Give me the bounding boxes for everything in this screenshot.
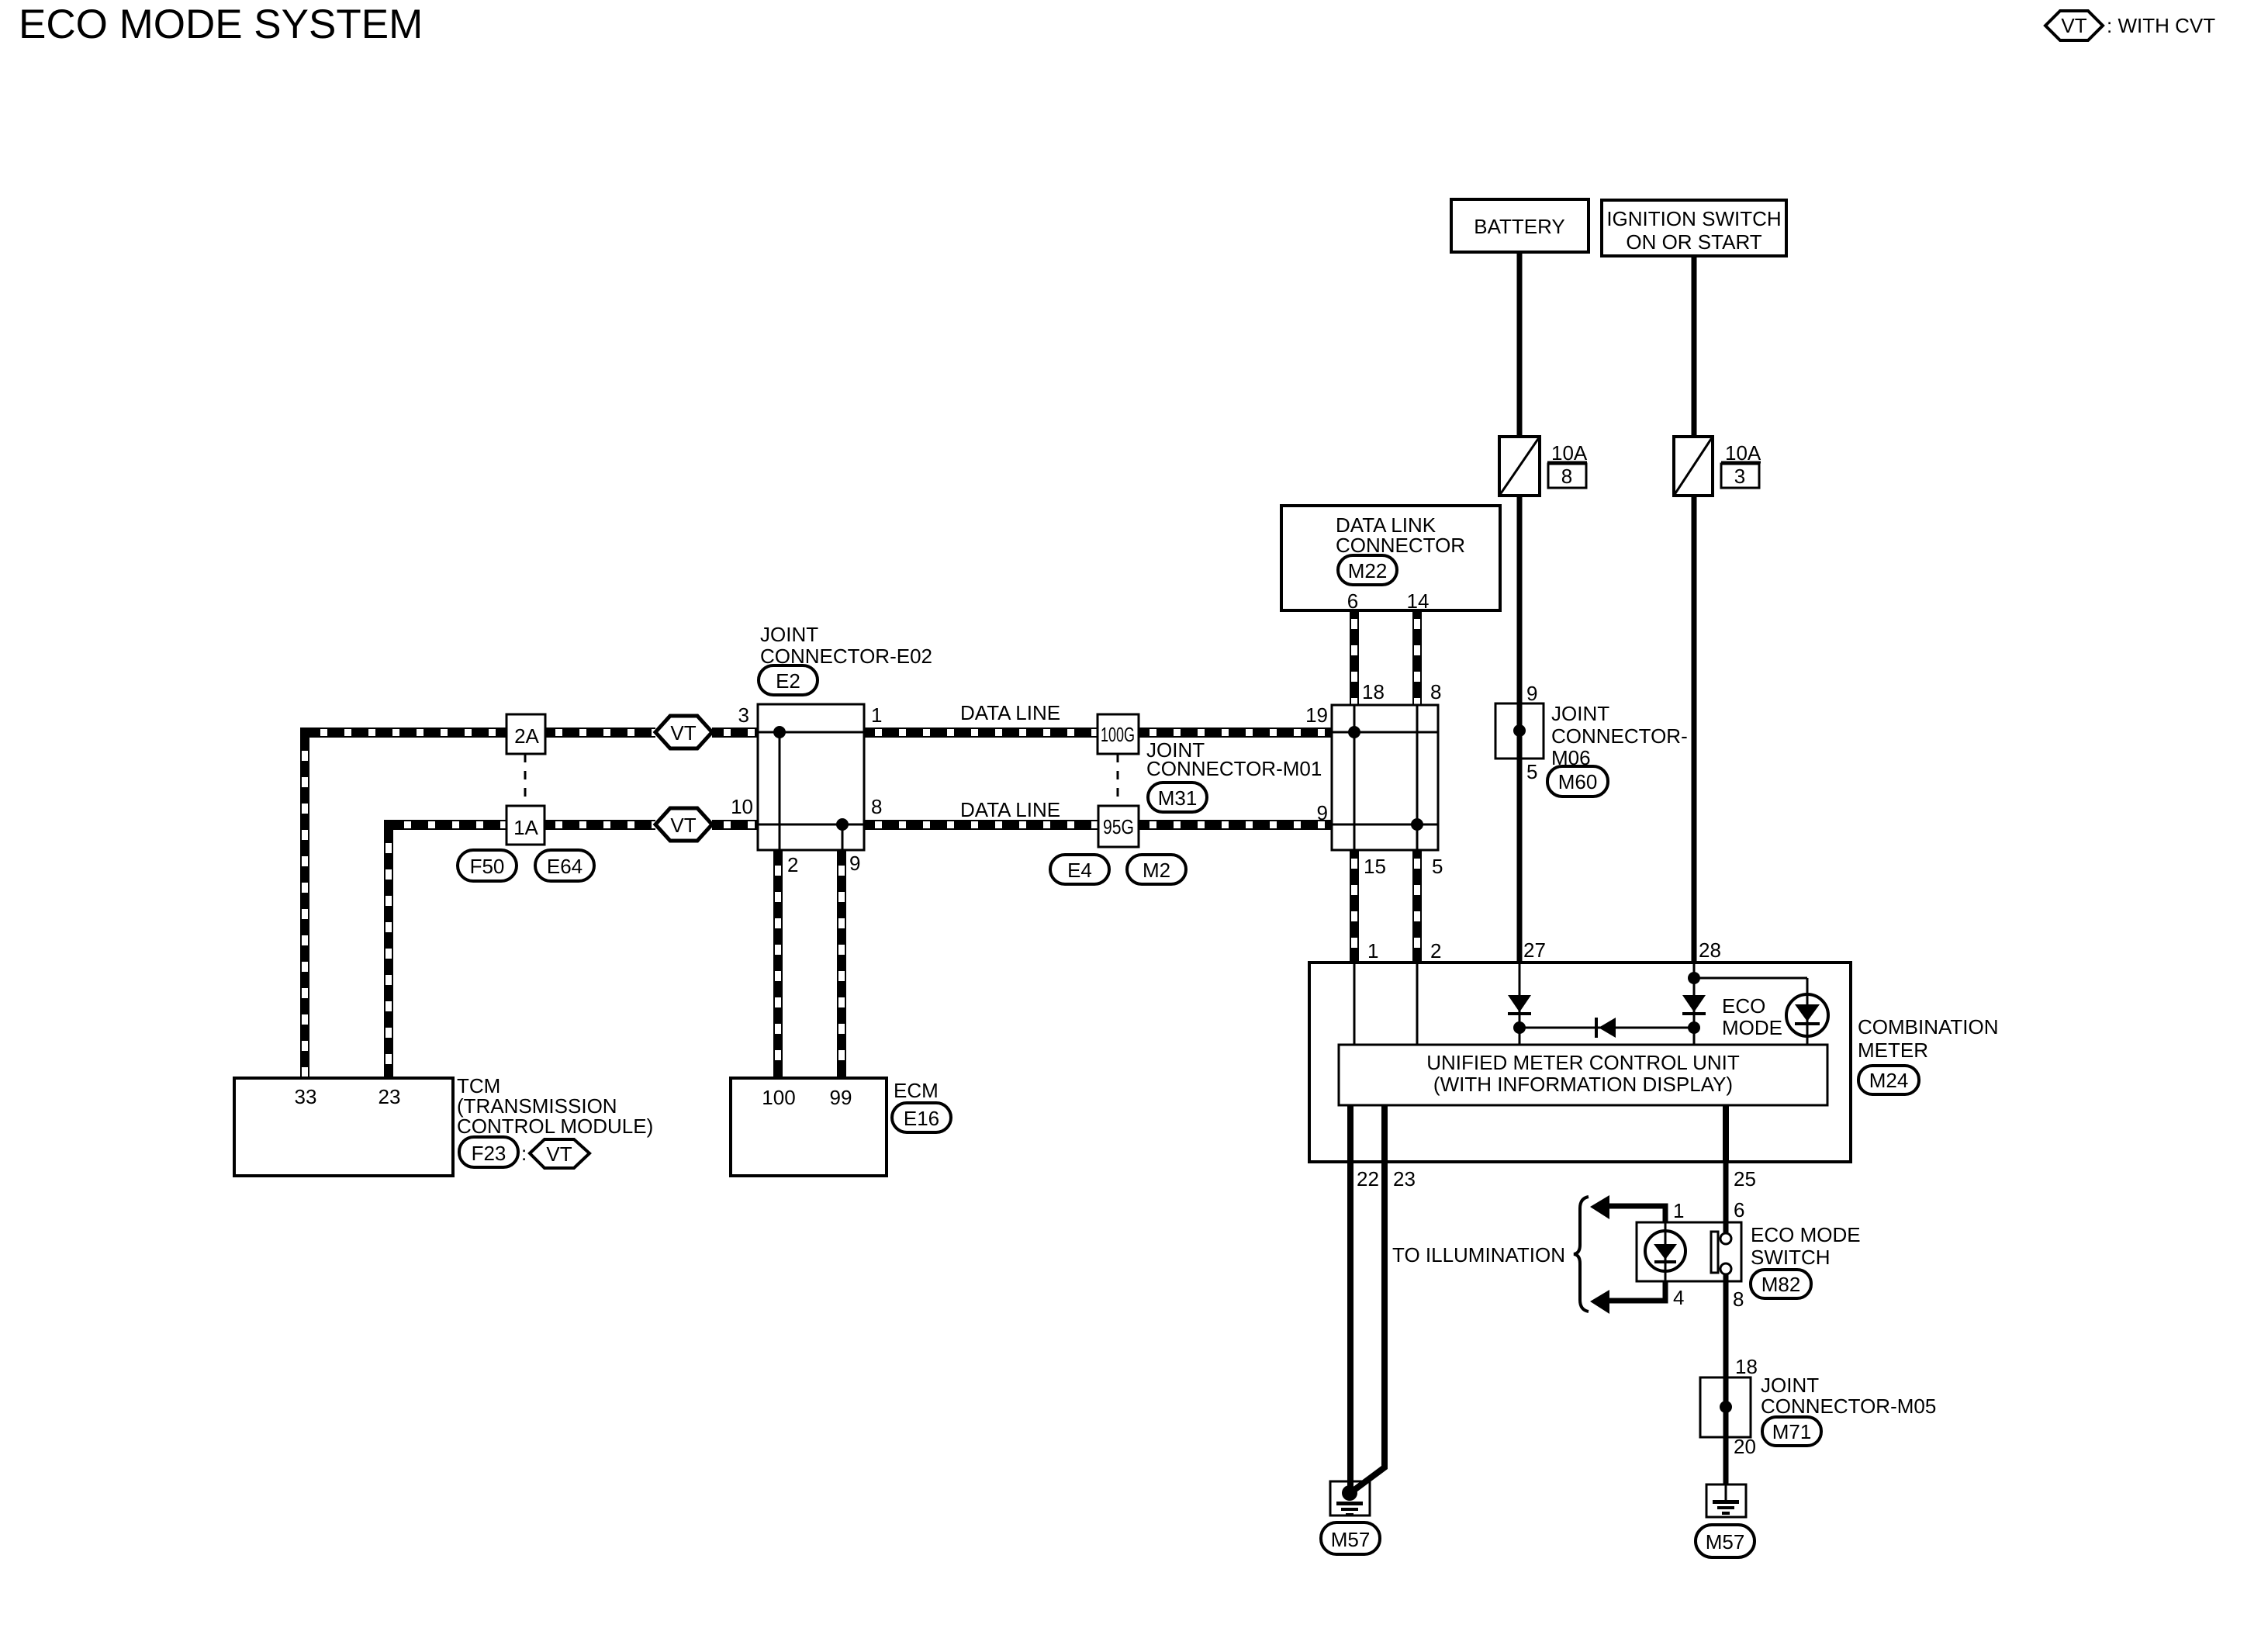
- svg-text:M2: M2: [1143, 859, 1170, 882]
- connector oval M24: [1858, 1066, 1919, 1094]
- wire meter pin23 to ground: [1351, 1162, 1385, 1492]
- wire 2A to VT hexagon (data line 1): [545, 728, 655, 738]
- svg-text:COMBINATION: COMBINATION: [1858, 1015, 1999, 1039]
- svg-text:100: 100: [762, 1086, 795, 1109]
- ignition switch box: [1602, 200, 1786, 256]
- wire data-line-2 corner to 1A box (horizontal): [384, 820, 506, 830]
- connector oval F50: [458, 850, 517, 881]
- connector oval E64: [535, 850, 594, 881]
- wire E02 pin2 to ECM pin100: [773, 850, 783, 1078]
- switch contact bar: [1711, 1232, 1718, 1273]
- junction in M01 (pin19/pin18): [1348, 726, 1360, 738]
- connector oval F23: [459, 1137, 518, 1167]
- label COMBINATION METER: [1858, 1015, 1999, 1062]
- ECM box: [731, 1078, 887, 1176]
- svg-text:E2: E2: [776, 669, 800, 693]
- wire meter pin27 to unit: [1519, 963, 1521, 1045]
- wire fuse8 to combination meter pin 27: [1517, 496, 1523, 963]
- wire inside M01 pin8 to pin5: [1416, 705, 1419, 850]
- connector oval M2: [1127, 855, 1186, 884]
- wire fuse3 to combination meter pin 28: [1692, 496, 1697, 963]
- svg-text:5: 5: [1432, 855, 1443, 878]
- svg-text:100G: 100G: [1101, 723, 1135, 746]
- combination meter box: [1309, 963, 1851, 1162]
- wire DLC pin6 to M01 pin18: [1350, 610, 1359, 705]
- svg-text:IGNITION SWITCH: IGNITION SWITCH: [1606, 207, 1781, 230]
- TCM box: [234, 1078, 453, 1176]
- wire inside M01 pin18 to pin15: [1353, 705, 1356, 850]
- label JOINT CONNECTOR-M01: [1146, 738, 1322, 780]
- svg-text:3: 3: [1734, 465, 1745, 488]
- svg-text:23: 23: [379, 1085, 401, 1108]
- label TCM (TRANSMISSION CONTROL MODULE): [457, 1074, 653, 1138]
- svg-text:M57: M57: [1706, 1530, 1745, 1554]
- wire 1A to VT hexagon (data line 2): [545, 820, 655, 830]
- svg-text:18: 18: [1735, 1355, 1758, 1378]
- VT hexagon (TCM condition): [530, 1139, 589, 1168]
- svg-text:28: 28: [1699, 938, 1721, 962]
- svg-text:F50: F50: [470, 855, 505, 878]
- wire data-line-1 corner to 2A box (horizontal): [300, 728, 506, 738]
- label JOINT CONNECTOR-M06: [1551, 702, 1688, 769]
- svg-text:E4: E4: [1067, 859, 1092, 882]
- svg-text:VT: VT: [670, 721, 696, 745]
- svg-text:CONNECTOR-M05: CONNECTOR-M05: [1761, 1395, 1936, 1418]
- wire M01 pin15 to meter pin1: [1350, 850, 1359, 963]
- svg-text:DATA LINE: DATA LINE: [960, 701, 1060, 724]
- wire M05 pin20 to ground: [1723, 1437, 1729, 1484]
- svg-text:JOINT: JOINT: [1551, 702, 1609, 725]
- dashed link 2A to 1A: [524, 754, 527, 806]
- svg-text:23: 23: [1393, 1167, 1416, 1191]
- svg-text:M71: M71: [1772, 1420, 1812, 1443]
- junction below D1: [1513, 1021, 1526, 1034]
- brace TO ILLUMINATION: [1574, 1197, 1589, 1312]
- svg-text:8: 8: [1733, 1287, 1744, 1311]
- wire inside E02 pin3 to pin1: [758, 731, 864, 734]
- junction in E02 (pin3): [773, 726, 786, 738]
- svg-text:VT: VT: [2061, 14, 2086, 37]
- svg-text:8: 8: [871, 795, 882, 818]
- wire M01 pin5 to meter pin2: [1412, 850, 1422, 963]
- illumination arrow (top): [1590, 1195, 1665, 1222]
- VT hexagon (data line 1): [655, 716, 712, 748]
- svg-text:(WITH INFORMATION DISPLAY): (WITH INFORMATION DISPLAY): [1433, 1073, 1733, 1096]
- label ECO MODE SWITCH: [1751, 1223, 1861, 1269]
- dashed link 100G to 95G: [1117, 754, 1119, 806]
- fuse number box 8: [1548, 464, 1586, 488]
- connector oval M57 (left): [1321, 1522, 1380, 1554]
- fuse 10A (ignition, No.3): [1674, 437, 1713, 496]
- svg-text:SWITCH: SWITCH: [1751, 1246, 1831, 1269]
- splice 100G: [1098, 714, 1139, 754]
- svg-text:CONNECTOR-M01: CONNECTOR-M01: [1146, 757, 1322, 780]
- svg-text:10: 10: [731, 795, 753, 818]
- connector oval M31: [1148, 783, 1207, 812]
- svg-text:CONNECTOR: CONNECTOR: [1336, 534, 1465, 557]
- svg-text:M60: M60: [1558, 770, 1598, 793]
- label ECO MODE: [1722, 994, 1782, 1039]
- connector oval M82: [1751, 1270, 1811, 1298]
- svg-text:ON OR START: ON OR START: [1626, 230, 1761, 254]
- unified meter control unit box: [1339, 1045, 1827, 1105]
- svg-text:M31: M31: [1158, 786, 1198, 810]
- wire inside E02 down to pin2: [779, 732, 781, 850]
- wire meter pin22 to ground: [1347, 1162, 1353, 1494]
- joint connector M06: [1495, 703, 1544, 759]
- svg-text:ECO: ECO: [1722, 994, 1765, 1018]
- splice 1A: [506, 806, 545, 845]
- wire 100G to M01 pin 19: [1139, 728, 1332, 738]
- svg-text:: WITH CVT: : WITH CVT: [2107, 14, 2215, 37]
- svg-text:6: 6: [1347, 589, 1358, 613]
- svg-text:19: 19: [1305, 703, 1328, 727]
- svg-text:3: 3: [738, 703, 749, 727]
- wire battery to fuse: [1517, 252, 1523, 437]
- wire VT to joint connector E02 pin 3: [712, 728, 758, 738]
- data link connector box: [1281, 506, 1500, 610]
- svg-text:E64: E64: [547, 855, 583, 878]
- wire unit to meter pin22: [1347, 1105, 1353, 1162]
- svg-text:TO ILLUMINATION: TO ILLUMINATION: [1392, 1243, 1565, 1267]
- svg-text:E16: E16: [904, 1107, 939, 1130]
- wire meter pin2 to unit: [1416, 963, 1419, 1045]
- wire unit to meter pin23: [1381, 1105, 1388, 1162]
- ECO MODE indicator LED: [1786, 994, 1828, 1036]
- connector oval E16: [892, 1103, 951, 1132]
- wire E02 pin9 to ECM pin99: [837, 850, 846, 1078]
- switch contact (top): [1720, 1233, 1731, 1244]
- connector oval E2: [759, 665, 818, 695]
- svg-text:9: 9: [1526, 682, 1537, 705]
- svg-text:UNIFIED METER CONTROL UNIT: UNIFIED METER CONTROL UNIT: [1426, 1051, 1740, 1074]
- svg-text:MODE: MODE: [1722, 1016, 1782, 1039]
- fuse 10A (battery, No.8): [1499, 437, 1540, 496]
- svg-text:4: 4: [1673, 1286, 1684, 1309]
- svg-text:22: 22: [1357, 1167, 1379, 1191]
- wire pin28 branch to ECO MODE lamp: [1694, 978, 1807, 995]
- connector oval M57 (right): [1696, 1525, 1755, 1557]
- svg-text:99: 99: [830, 1086, 852, 1109]
- svg-text:ECO MODE SYSTEM: ECO MODE SYSTEM: [19, 2, 423, 47]
- label JOINT CONNECTOR-M05: [1761, 1374, 1936, 1418]
- svg-text:CONNECTOR-: CONNECTOR-: [1551, 724, 1688, 748]
- svg-text:1: 1: [871, 703, 882, 727]
- wire lamp to unit: [1806, 1036, 1809, 1045]
- svg-text:2: 2: [787, 853, 798, 876]
- connector oval E4: [1050, 855, 1109, 884]
- illumination arrow (bottom): [1590, 1281, 1665, 1314]
- svg-text:18: 18: [1362, 680, 1385, 703]
- diode D2 (pin28): [1682, 995, 1706, 1015]
- wire data-line-2 corner to TCM pin 23 (vertical): [384, 820, 393, 1078]
- splice 2A: [506, 714, 545, 754]
- svg-text:1A: 1A: [513, 816, 538, 839]
- svg-text:BATTERY: BATTERY: [1474, 215, 1565, 238]
- wire inside M01 pin9 horizontal: [1332, 824, 1438, 826]
- wire VT to joint connector E02 pin 10: [712, 820, 758, 830]
- wire inside E02 pin10 to pin8: [758, 824, 864, 826]
- junction in E02 (pin10): [836, 818, 849, 831]
- eco mode switch box: [1637, 1222, 1741, 1281]
- legend VT hexagon: [2045, 11, 2103, 40]
- svg-text:ECM: ECM: [894, 1079, 939, 1102]
- switch illumination LED: [1645, 1222, 1685, 1281]
- svg-text:5: 5: [1526, 760, 1537, 783]
- connector oval M22: [1338, 555, 1397, 585]
- wire E02 pin 8 to 95G (DATA LINE): [864, 820, 1098, 830]
- joint connector E02 box: [758, 704, 864, 850]
- svg-text:1: 1: [1367, 939, 1378, 963]
- svg-text:M24: M24: [1869, 1069, 1909, 1092]
- svg-text:6: 6: [1734, 1198, 1744, 1222]
- svg-text:F23: F23: [472, 1142, 506, 1165]
- wire switch pin8 to M05 pin18: [1723, 1274, 1729, 1377]
- wire unit to meter pin25: [1723, 1105, 1729, 1162]
- svg-text:9: 9: [1317, 801, 1328, 824]
- svg-text:DATA LINE: DATA LINE: [960, 798, 1060, 821]
- svg-text:CONTROL MODULE): CONTROL MODULE): [457, 1115, 653, 1138]
- svg-text:ECO MODE: ECO MODE: [1751, 1223, 1861, 1246]
- svg-text:27: 27: [1523, 938, 1546, 962]
- svg-text:33: 33: [295, 1085, 317, 1108]
- splice 95G: [1098, 806, 1139, 847]
- svg-text:VT: VT: [546, 1142, 572, 1166]
- wire 95G to M01 pin 9: [1139, 820, 1332, 830]
- svg-text:25: 25: [1734, 1167, 1756, 1191]
- diode D1 (pin27): [1508, 995, 1531, 1015]
- wire meter pin25 to switch pin6: [1723, 1162, 1729, 1232]
- joint connector M05: [1700, 1377, 1751, 1437]
- svg-text:M22: M22: [1348, 559, 1388, 582]
- svg-text:M57: M57: [1331, 1528, 1371, 1551]
- svg-text:2: 2: [1430, 939, 1441, 963]
- wire inside M01 pin19 horizontal: [1332, 731, 1438, 734]
- svg-text:JOINT: JOINT: [1761, 1374, 1819, 1397]
- svg-text:2A: 2A: [514, 724, 539, 748]
- ground M57 (right): [1706, 1484, 1746, 1517]
- svg-text:8: 8: [1561, 465, 1572, 488]
- svg-text:M82: M82: [1761, 1273, 1801, 1296]
- ground M57 (left): [1330, 1481, 1370, 1516]
- junction below D2: [1688, 1021, 1700, 1034]
- svg-text:1: 1: [1673, 1199, 1684, 1222]
- label JOINT CONNECTOR-E02: [760, 623, 932, 668]
- wire meter pin28 to unit: [1693, 963, 1696, 1045]
- junction in M01 (pin9/pin8): [1411, 818, 1423, 831]
- wire meter pin1 to unit: [1353, 963, 1356, 1045]
- wire E02 pin 1 to 100G (DATA LINE): [864, 728, 1098, 738]
- diode D3 (left pointing): [1595, 1018, 1616, 1038]
- VT hexagon (data line 2): [655, 808, 712, 841]
- wire ignition to fuse: [1692, 256, 1697, 437]
- svg-text:8: 8: [1430, 680, 1441, 703]
- svg-text:15: 15: [1364, 855, 1386, 878]
- fuse number box 3: [1721, 464, 1759, 488]
- wire between junctions: [1519, 1027, 1694, 1029]
- connector oval M60: [1547, 766, 1608, 797]
- joint connector M01 box: [1332, 705, 1438, 850]
- svg-text:JOINT: JOINT: [760, 623, 818, 646]
- wire DLC pin14 to M01 pin8: [1412, 610, 1422, 705]
- wire data-line-1 corner to TCM pin 33 (vertical): [300, 728, 309, 1078]
- connector oval M71: [1762, 1417, 1821, 1446]
- switch contact (bottom): [1720, 1263, 1731, 1274]
- svg-text:VT: VT: [670, 814, 696, 837]
- svg-text:METER: METER: [1858, 1039, 1928, 1062]
- svg-text:14: 14: [1407, 589, 1430, 613]
- svg-text:20: 20: [1734, 1435, 1756, 1458]
- svg-text::: :: [521, 1142, 527, 1165]
- battery box: [1451, 199, 1589, 252]
- wire inside E02 down to pin9: [842, 824, 844, 850]
- svg-text:95G: 95G: [1103, 815, 1134, 838]
- svg-text:9: 9: [849, 852, 860, 875]
- junction at pin28 branch: [1688, 972, 1700, 984]
